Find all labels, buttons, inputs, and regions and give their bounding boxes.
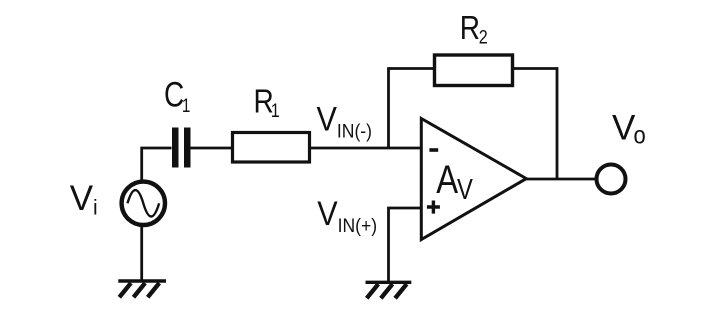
ground at source xyxy=(118,281,166,297)
resistor R2 xyxy=(435,55,513,86)
svg-text:VIN(+): VIN(+) xyxy=(317,195,377,237)
wire capacitor to R1 xyxy=(191,147,232,150)
wire source top to capacitor xyxy=(142,148,172,182)
wire R2 to output vertical xyxy=(513,69,557,180)
wire op-amp output xyxy=(526,178,595,181)
ground at positive input xyxy=(366,282,412,298)
svg-text:Vi: Vi xyxy=(70,179,98,220)
op-amp U1 xyxy=(421,119,526,240)
label C1 xyxy=(164,74,190,116)
label R1 xyxy=(254,84,280,122)
output terminal Vo xyxy=(597,165,626,194)
svg-text:C1: C1 xyxy=(164,74,190,116)
svg-text:AV: AV xyxy=(436,157,473,206)
wire op-amp positive input xyxy=(389,208,422,281)
wire R1 to op-amp inverting input xyxy=(311,147,421,150)
wire source bottom to ground xyxy=(140,225,143,281)
svg-text:R2: R2 xyxy=(460,10,488,48)
svg-text:R1: R1 xyxy=(254,84,280,122)
resistor R1 xyxy=(233,133,310,163)
svg-text:o: o xyxy=(634,121,646,149)
node VIN(+) label xyxy=(317,195,377,237)
op-amp gain label AV xyxy=(436,157,473,206)
capacitor C1 xyxy=(172,128,191,168)
svg-text:VIN(-): VIN(-) xyxy=(317,100,372,142)
wire feedback left vertical xyxy=(389,69,434,149)
node VIN(-) label xyxy=(317,100,372,142)
svg-text:V: V xyxy=(612,109,636,148)
voltage source Vi xyxy=(122,182,165,225)
label R2 xyxy=(460,10,488,48)
